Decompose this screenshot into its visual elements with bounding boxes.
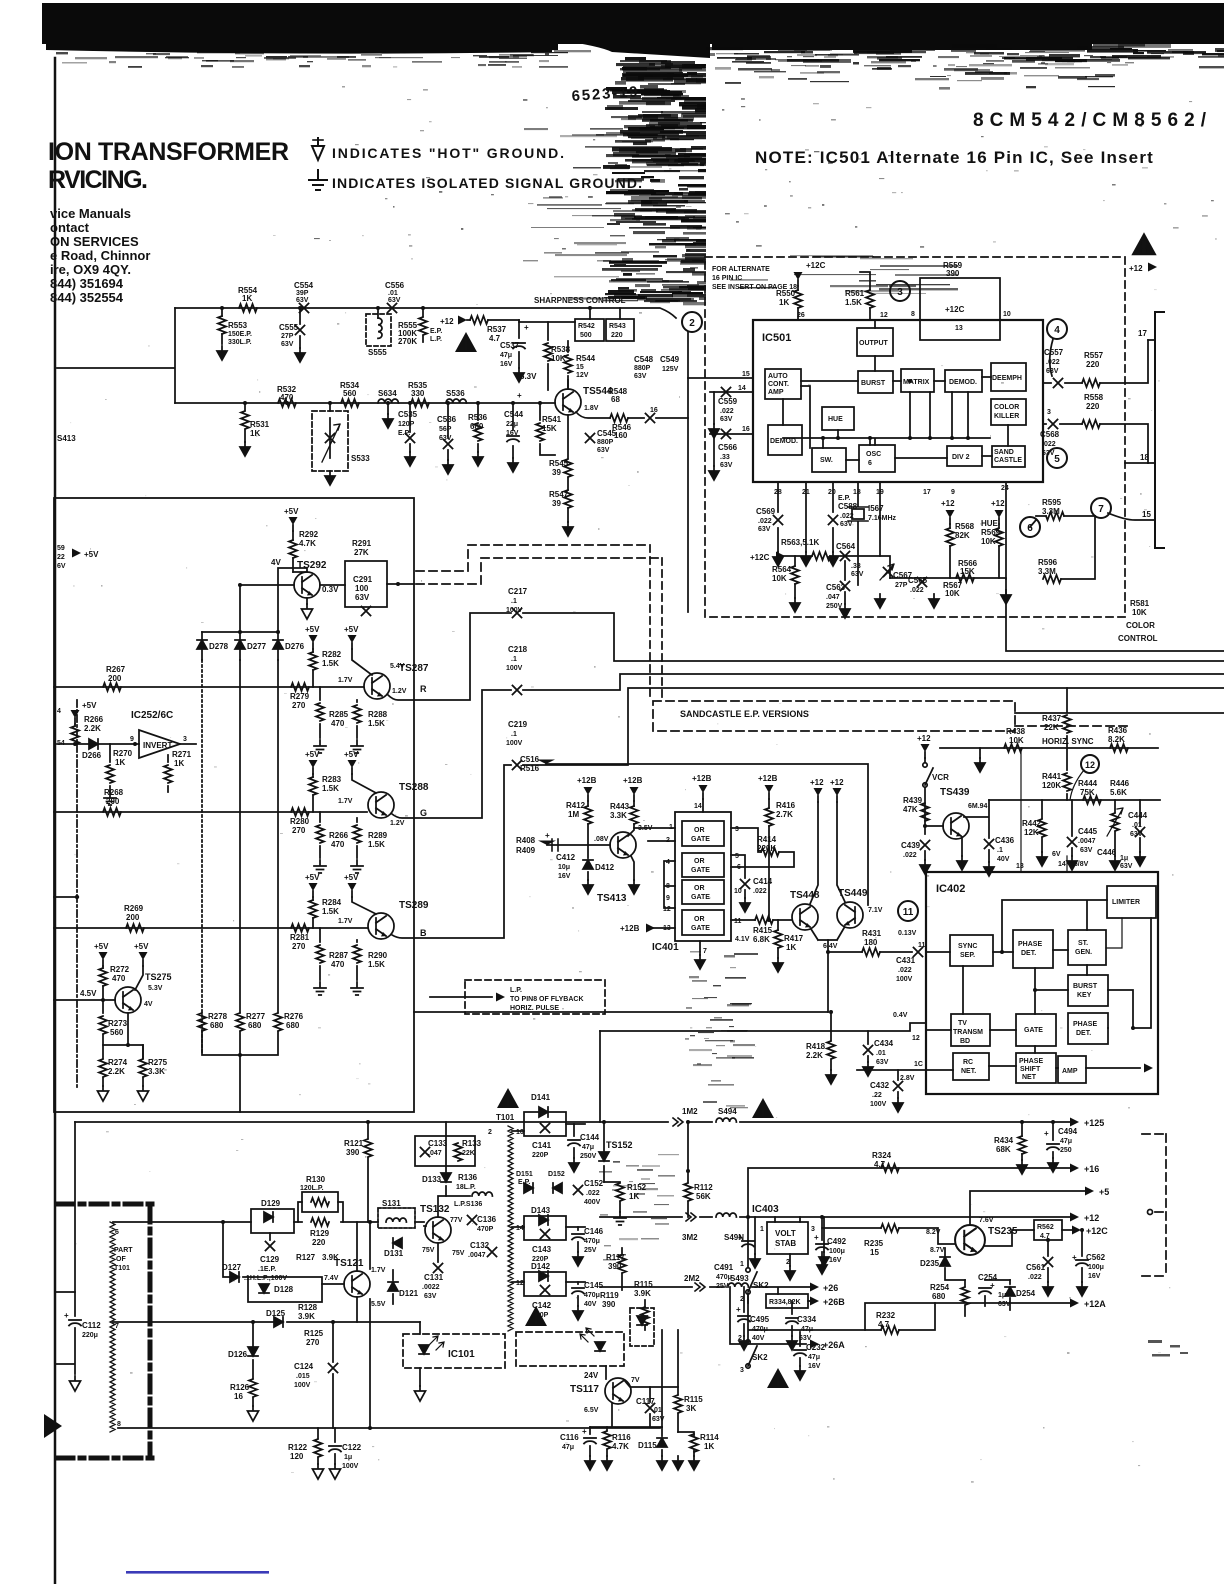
capacitor C116 [589, 1427, 591, 1434]
or gate 3 [682, 880, 724, 904]
coil S49N [716, 1213, 736, 1217]
wire TS544 collector [567, 380, 569, 389]
svg-text:27P: 27P [895, 582, 908, 589]
svg-text:.047: .047 [826, 594, 840, 601]
isolation barrier thick dashes [57, 1204, 154, 1458]
svg-text:SHARPNESS CONTROL: SHARPNESS CONTROL [534, 296, 626, 305]
svg-text:20: 20 [828, 489, 836, 496]
svg-text:R232: R232 [876, 1311, 896, 1320]
svg-text:6.3V: 6.3V [520, 372, 537, 381]
resistor R568 [949, 524, 951, 578]
flyback dashed box [465, 980, 605, 1014]
voltage labels [1016, 851, 1089, 870]
diodes D151 D152 [516, 1171, 565, 1186]
transistor TS288 [368, 792, 394, 818]
svg-text:R115: R115 [684, 1395, 703, 1404]
headers [48, 83, 1207, 305]
resistor R555 [422, 308, 424, 316]
block DEMOD [945, 370, 982, 392]
svg-text:470: 470 [331, 960, 345, 969]
svg-text:HUE: HUE [981, 519, 999, 528]
resistor R438 [1004, 744, 1022, 752]
svg-text:400V: 400V [584, 1199, 601, 1206]
svg-text:+26A: +26A [823, 1340, 845, 1350]
wire B line [54, 927, 367, 929]
pin11 wire resistor R415 [731, 919, 791, 921]
wire aux line [1006, 579, 1224, 651]
resistor R282 [312, 649, 314, 687]
svg-text:R266: R266 [329, 831, 349, 840]
svg-text:R436: R436 [1108, 726, 1128, 735]
svg-text:S131: S131 [382, 1199, 401, 1208]
capacitor C557 wire [1050, 339, 1053, 376]
resistor R125 [304, 1329, 324, 1347]
svg-text:C562: C562 [1086, 1253, 1106, 1262]
svg-text:IC401: IC401 [652, 942, 679, 953]
resistor box R543 [606, 319, 634, 341]
svg-text:4: 4 [57, 708, 61, 715]
svg-text:SEP.: SEP. [960, 952, 975, 959]
svg-text:C132: C132 [470, 1241, 490, 1250]
svg-text:R: R [420, 684, 427, 694]
svg-text:880P: 880P [597, 439, 614, 446]
svg-text:+5V: +5V [344, 625, 359, 634]
blue pen line [126, 1571, 269, 1574]
svg-text:D276: D276 [285, 642, 305, 651]
svg-text:6.8K: 6.8K [753, 935, 770, 944]
svg-text:7: 7 [115, 1323, 119, 1330]
svg-text:1.5K: 1.5K [845, 298, 862, 307]
emitter chain down [567, 415, 569, 522]
svg-text:D128: D128 [274, 1285, 294, 1294]
svg-text:R415: R415 [753, 926, 773, 935]
svg-text:COLOR: COLOR [1126, 621, 1155, 630]
wire bus2 [175, 402, 555, 404]
hsync wire [940, 747, 1158, 749]
pin24 wire [1005, 482, 1007, 579]
svg-text:+5: +5 [1099, 1187, 1109, 1197]
svg-text:R288: R288 [368, 710, 388, 719]
photocopy speckle [70, 235, 1174, 1483]
svg-text:TS235: TS235 [988, 1226, 1018, 1237]
svg-text:75K: 75K [1080, 788, 1095, 797]
resistor R531 [244, 403, 246, 442]
switch contact symbol [1148, 1210, 1153, 1215]
svg-text:2.2K: 2.2K [84, 724, 101, 733]
svg-text:100μ: 100μ [1088, 1264, 1104, 1271]
svg-text:27P: 27P [281, 333, 294, 340]
svg-text:BURST: BURST [1073, 983, 1098, 990]
svg-text:100μ: 100μ [829, 1248, 845, 1255]
svg-text:R282: R282 [322, 650, 342, 659]
svg-text:R417: R417 [784, 934, 804, 943]
grounds TS289 [314, 982, 326, 995]
svg-text:63V: 63V [1120, 863, 1133, 870]
wire y800 [989, 799, 1160, 801]
bottom pin labels [774, 485, 1009, 496]
TS439 base wire [925, 825, 943, 827]
svg-text:R279: R279 [290, 692, 310, 701]
svg-text:R254: R254 [930, 1283, 950, 1292]
capacitor C432 [897, 1070, 899, 1080]
svg-text:C446: C446 [1097, 848, 1117, 857]
svg-text:VCR: VCR [932, 773, 949, 782]
capacitor C291 box [320, 584, 345, 586]
svg-text:+12A: +12A [1084, 1299, 1106, 1309]
svg-text:.022: .022 [1028, 1274, 1042, 1281]
capacitor C565 [918, 578, 927, 587]
svg-text:B: B [420, 928, 427, 938]
svg-text:GATE: GATE [691, 867, 710, 874]
svg-text:+12: +12 [941, 499, 955, 508]
svg-text:12: 12 [516, 1280, 524, 1287]
capacitor C544 [512, 403, 514, 458]
svg-text:63V: 63V [720, 462, 733, 469]
svg-text:3: 3 [735, 826, 739, 833]
svg-text:3.3M: 3.3M [1038, 567, 1056, 576]
svg-text:BURST: BURST [861, 380, 886, 387]
junction dots bus2 [243, 401, 542, 405]
svg-text:e Road, Chinnor: e Road, Chinnor [50, 248, 150, 263]
svg-text:R115: R115 [634, 1280, 653, 1289]
resistor R269 [126, 924, 144, 932]
svg-text:C131: C131 [424, 1273, 444, 1282]
block COLOR KILLER [991, 399, 1026, 425]
wire sandcastle ext [1015, 712, 1224, 714]
capacitor C545 labels [586, 434, 595, 443]
svg-text:6: 6 [115, 1229, 119, 1236]
svg-text:TV: TV [958, 1020, 967, 1027]
svg-text:R431: R431 [862, 929, 882, 938]
svg-text:+12B: +12B [692, 774, 712, 783]
svg-text:R128: R128 [298, 1303, 318, 1312]
svg-text:5.4V: 5.4V [390, 663, 405, 670]
svg-text:+: + [545, 831, 550, 840]
svg-text:L.P.: L.P. [510, 987, 522, 994]
crystal I567 [857, 482, 859, 585]
svg-text:D254: D254 [1016, 1289, 1036, 1298]
svg-text:R280: R280 [290, 817, 310, 826]
resistor R554 [239, 304, 257, 312]
svg-text:5: 5 [735, 853, 739, 860]
svg-text:3: 3 [811, 1226, 815, 1233]
capacitor C491 [742, 1241, 754, 1247]
svg-text:220: 220 [611, 332, 623, 339]
svg-text:10K: 10K [981, 537, 996, 546]
svg-text:470: 470 [112, 974, 126, 983]
border arrow mark [44, 1414, 62, 1438]
block RC NET [953, 1053, 989, 1080]
+5 line [748, 1191, 1085, 1267]
svg-text:L.P.: L.P. [430, 336, 442, 343]
svg-text:R292: R292 [299, 530, 319, 539]
svg-text:8: 8 [911, 311, 915, 318]
diode D127 [223, 1222, 248, 1277]
svg-text:TS117: TS117 [570, 1384, 599, 1395]
svg-text:C554: C554 [294, 281, 314, 290]
block LIMITER [1107, 886, 1156, 918]
vertical rails [201, 660, 203, 1055]
capacitor C564 [841, 552, 850, 561]
or gate 2 [682, 853, 724, 877]
svg-text:D277: D277 [247, 642, 267, 651]
svg-text:.022: .022 [1042, 441, 1056, 448]
resistor R417 [777, 920, 779, 958]
TS439 collector wire [964, 800, 989, 862]
svg-text:0.3V: 0.3V [322, 585, 339, 594]
resistor R127 [296, 1253, 339, 1262]
svg-text:D121: D121 [399, 1289, 419, 1298]
svg-text:1.5K: 1.5K [322, 907, 339, 916]
svg-text:1.7V: 1.7V [338, 918, 353, 925]
svg-text:63V: 63V [597, 447, 610, 454]
svg-text:39: 39 [552, 468, 561, 477]
node 7 circle [1091, 498, 1111, 518]
svg-text:22K: 22K [462, 1150, 475, 1157]
svg-text:8.2K: 8.2K [1108, 735, 1125, 744]
svg-text:13: 13 [955, 325, 963, 332]
svg-text:0.4V: 0.4V [893, 1012, 908, 1019]
extra noise column density [642, 74, 668, 77]
svg-text:+: + [990, 1281, 995, 1290]
svg-text:R274: R274 [108, 1058, 128, 1067]
resistor R414 loop [731, 828, 794, 878]
svg-text:ON SERVICES: ON SERVICES [50, 234, 139, 249]
rectifier cell C [512, 1281, 585, 1283]
capacitor C436 [985, 840, 994, 849]
svg-text:C557: C557 [1044, 348, 1064, 357]
TS413 base wire [538, 841, 556, 846]
svg-text:R412: R412 [566, 801, 586, 810]
svg-text:63V: 63V [281, 341, 294, 348]
svg-text:17: 17 [923, 489, 931, 496]
transistor TS121 [344, 1271, 370, 1297]
TS449 collector [837, 802, 845, 902]
diode D277 [239, 632, 241, 660]
svg-text:330: 330 [411, 389, 425, 398]
svg-text:.22: .22 [872, 1092, 882, 1099]
wire pin19 [879, 482, 881, 556]
svg-text:.33: .33 [851, 563, 861, 570]
svg-text:680: 680 [286, 1021, 300, 1030]
svg-text:R442: R442 [1022, 819, 1042, 828]
svg-text:1M: 1M [568, 810, 579, 819]
junction dots bus1 [220, 306, 592, 310]
svg-text:R544: R544 [576, 354, 596, 363]
svg-text:3K: 3K [686, 1404, 696, 1413]
svg-text:250V: 250V [580, 1153, 597, 1160]
wire G output path [414, 674, 1224, 818]
svg-text:R414: R414 [757, 835, 777, 844]
svg-text:11: 11 [734, 918, 742, 925]
svg-text:6: 6 [868, 460, 872, 467]
svg-text:330L.P.: 330L.P. [228, 339, 252, 346]
+12 line IC403 [600, 1216, 1070, 1218]
diode D278 [201, 632, 203, 660]
svg-text:C516: C516 [520, 755, 540, 764]
svg-text:10K: 10K [551, 354, 566, 363]
resistor R418 [830, 1012, 832, 1070]
svg-text:56P: 56P [439, 426, 452, 433]
resistor R126 [249, 1379, 257, 1397]
svg-text:TS275: TS275 [145, 972, 172, 982]
TS288 emitter wire [392, 814, 414, 818]
svg-text:TS288: TS288 [399, 782, 429, 793]
svg-text:OUTPUT: OUTPUT [859, 340, 889, 347]
svg-text:470μ: 470μ [584, 1292, 600, 1299]
S136 coil [454, 1201, 482, 1208]
wire left stub [57, 308, 175, 403]
svg-text:3.3K: 3.3K [148, 1067, 165, 1076]
svg-text:C556: C556 [385, 281, 405, 290]
svg-text:NET.: NET. [961, 1068, 976, 1075]
resistor R548 [610, 414, 628, 422]
svg-text:39P: 39P [296, 290, 309, 297]
svg-text:R130: R130 [306, 1175, 326, 1184]
trimmer C567 [884, 568, 893, 577]
svg-text:C144: C144 [580, 1133, 600, 1142]
svg-text:470P: 470P [477, 1226, 494, 1233]
warning triangle IC101 [525, 1306, 547, 1326]
svg-text:.022: .022 [898, 967, 912, 974]
svg-text:C219: C219 [508, 720, 528, 729]
svg-text:4.7: 4.7 [489, 334, 501, 343]
chevron 3M2 [686, 1213, 696, 1221]
resistor R538 [547, 322, 549, 390]
svg-text:.01: .01 [876, 1050, 886, 1057]
svg-text:R562: R562 [1037, 1224, 1054, 1231]
ground stub hsync [979, 748, 981, 758]
transistor TS449 [837, 902, 863, 928]
diode D254 [1009, 1280, 1011, 1310]
svg-text:100: 100 [355, 584, 369, 593]
capacitor C554 [300, 304, 309, 313]
transistor TS287 [364, 673, 390, 699]
svg-text:1.5K: 1.5K [322, 659, 339, 668]
svg-text:R441: R441 [1042, 772, 1062, 781]
svg-text:D115: D115 [638, 1441, 657, 1450]
svg-text:470μ: 470μ [584, 1238, 600, 1245]
svg-text:+5V: +5V [305, 750, 320, 759]
svg-text:1.5K: 1.5K [322, 784, 339, 793]
svg-text:GEN.: GEN. [1075, 949, 1092, 956]
svg-text:R266: R266 [84, 715, 104, 724]
capacitor C535 [409, 403, 411, 452]
svg-text:R114: R114 [700, 1433, 719, 1442]
svg-text:.1: .1 [511, 731, 517, 738]
svg-text:5.6K: 5.6K [1110, 788, 1127, 797]
wire pin IC [857, 1069, 926, 1071]
svg-text:14: 14 [738, 385, 746, 392]
node 11 circle [898, 901, 918, 921]
svg-text:.022: .022 [753, 888, 767, 895]
svg-text:+: + [738, 1233, 743, 1242]
svg-text:NET: NET [1022, 1074, 1037, 1081]
svg-text:2.2K: 2.2K [806, 1051, 823, 1060]
svg-text:22K: 22K [1044, 723, 1059, 732]
svg-text:C334: C334 [797, 1315, 817, 1324]
svg-text:470: 470 [331, 719, 345, 728]
svg-text:R278: R278 [208, 1012, 228, 1021]
svg-text:S555: S555 [368, 348, 387, 357]
svg-text:47μ: 47μ [808, 1354, 820, 1361]
rectifier cell A [512, 1124, 585, 1131]
svg-text:R334,82K: R334,82K [769, 1299, 801, 1306]
block DEMOD lower [768, 425, 802, 455]
TS287 collector wire [352, 649, 372, 675]
svg-text:R127: R127 [296, 1253, 316, 1262]
svg-text:6V: 6V [1052, 851, 1061, 858]
svg-text:3: 3 [1047, 409, 1051, 416]
scan artifacts top band [42, 3, 1224, 1261]
svg-text:R287: R287 [329, 951, 349, 960]
svg-text:R284: R284 [322, 898, 342, 907]
warning triangle SK2 [767, 1368, 789, 1388]
warning triangle S494 [752, 1098, 774, 1118]
svg-text:HUE: HUE [828, 416, 843, 423]
capacitor C566 pin16 [710, 433, 753, 435]
svg-text:1.2V: 1.2V [392, 688, 407, 695]
resistor R119 [600, 1291, 619, 1309]
outputs right [1142, 1134, 1188, 1357]
svg-text:C544: C544 [504, 410, 524, 419]
svg-text:R283: R283 [322, 775, 342, 784]
capacitor C136 [468, 1216, 477, 1225]
svg-text:.01: .01 [652, 1407, 662, 1414]
svg-text:C569: C569 [756, 507, 776, 516]
ground R553 [217, 346, 227, 360]
svg-text:R446: R446 [1110, 779, 1130, 788]
svg-text:68K: 68K [996, 1145, 1011, 1154]
IC401 outer box [675, 812, 731, 941]
svg-text:17: 17 [1138, 329, 1147, 338]
svg-text:+: + [1072, 1253, 1077, 1262]
snubber D129 box [251, 1209, 294, 1233]
svg-text:SANDCASTLE E.P. VERSIONS: SANDCASTLE E.P. VERSIONS [680, 709, 809, 719]
svg-text:16: 16 [742, 426, 750, 433]
svg-text:COLOR: COLOR [994, 404, 1019, 411]
svg-text:R409: R409 [516, 846, 536, 855]
resistor R275 [142, 1045, 144, 1058]
resistor R324 [881, 1164, 899, 1172]
svg-text:R437: R437 [1042, 714, 1062, 723]
svg-text:22μ: 22μ [506, 421, 518, 428]
svg-text:R272: R272 [110, 965, 130, 974]
svg-text:+5V: +5V [284, 507, 299, 516]
svg-text:PHASE: PHASE [1073, 1021, 1097, 1028]
svg-text:D142: D142 [531, 1262, 551, 1271]
svg-text:+16: +16 [1084, 1164, 1099, 1174]
svg-text:+5V: +5V [82, 701, 97, 710]
svg-text:4.7: 4.7 [874, 1160, 886, 1169]
diode D115 [661, 1427, 663, 1456]
note for alternate [712, 266, 797, 291]
+16 line [748, 1168, 1070, 1217]
block MATRIX [901, 369, 934, 392]
IC501 dashed enclosure [705, 257, 1125, 617]
svg-text:220K: 220K [757, 844, 776, 853]
svg-text:6.5V: 6.5V [584, 1407, 599, 1414]
svg-text:120L.P.: 120L.P. [300, 1185, 324, 1192]
transistor TS275 [115, 987, 141, 1013]
svg-text:C141: C141 [532, 1141, 552, 1150]
svg-text:+12C: +12C [750, 553, 770, 562]
svg-text:1K: 1K [779, 298, 789, 307]
svg-text:63V: 63V [998, 1301, 1011, 1308]
svg-text:R561: R561 [845, 289, 865, 298]
transistor TS544 [555, 389, 581, 415]
svg-text:844) 351694: 844) 351694 [50, 276, 124, 291]
